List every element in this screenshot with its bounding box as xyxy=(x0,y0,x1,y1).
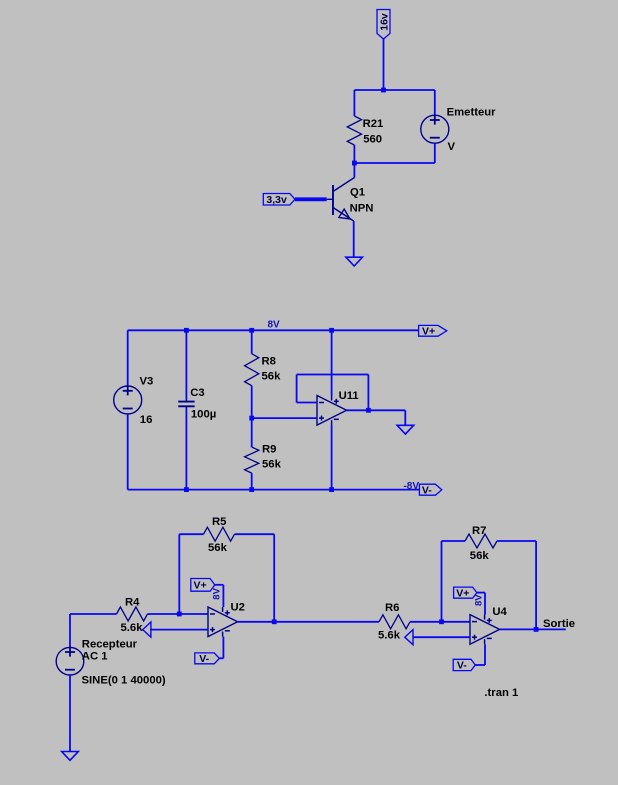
svg-text:V-: V- xyxy=(457,660,467,672)
svg-text:5.6k: 5.6k xyxy=(378,630,401,642)
svg-text:16: 16 xyxy=(140,414,153,426)
svg-text:AC 1: AC 1 xyxy=(82,651,108,663)
svg-text:R6: R6 xyxy=(385,602,399,614)
svg-text:Emetteur: Emetteur xyxy=(447,107,497,119)
svg-text:SINE(0 1 40000): SINE(0 1 40000) xyxy=(82,675,166,687)
svg-text:V3: V3 xyxy=(140,376,154,388)
svg-text:U11: U11 xyxy=(339,390,359,402)
svg-text:8V: 8V xyxy=(474,594,485,606)
svg-text:16v: 16v xyxy=(378,13,390,31)
svg-text:V-: V- xyxy=(422,484,432,496)
svg-text:Q1: Q1 xyxy=(350,187,365,199)
svg-text:V+: V+ xyxy=(194,580,207,592)
svg-text:V+: V+ xyxy=(422,326,435,338)
svg-text:100µ: 100µ xyxy=(191,408,216,420)
svg-text:R4: R4 xyxy=(125,596,140,608)
svg-text:56k: 56k xyxy=(262,459,282,471)
svg-text:56k: 56k xyxy=(208,542,228,554)
svg-text:560: 560 xyxy=(363,133,382,145)
svg-text:8V: 8V xyxy=(268,320,281,331)
svg-text:U2: U2 xyxy=(231,602,245,614)
svg-text:NPN: NPN xyxy=(350,203,374,215)
svg-text:8V: 8V xyxy=(211,587,222,599)
svg-text:R5: R5 xyxy=(212,516,226,528)
svg-text:5.6k: 5.6k xyxy=(121,622,144,634)
svg-text:R21: R21 xyxy=(363,118,384,130)
svg-text:U4: U4 xyxy=(492,606,507,618)
svg-text:R8: R8 xyxy=(262,356,276,368)
svg-text:56k: 56k xyxy=(262,371,282,383)
svg-text:3,3v: 3,3v xyxy=(266,194,287,206)
svg-text:Sortie: Sortie xyxy=(543,618,575,630)
svg-text:V: V xyxy=(448,141,456,153)
svg-text:V+: V+ xyxy=(456,587,469,599)
svg-text:-8V: -8V xyxy=(403,481,419,492)
svg-text:C3: C3 xyxy=(190,387,204,399)
svg-text:R9: R9 xyxy=(262,444,276,456)
svg-text:.tran 1: .tran 1 xyxy=(484,687,518,699)
svg-text:56k: 56k xyxy=(470,550,490,562)
svg-text:R7: R7 xyxy=(472,525,486,537)
svg-text:V-: V- xyxy=(199,653,209,665)
svg-text:Recepteur: Recepteur xyxy=(82,639,138,651)
